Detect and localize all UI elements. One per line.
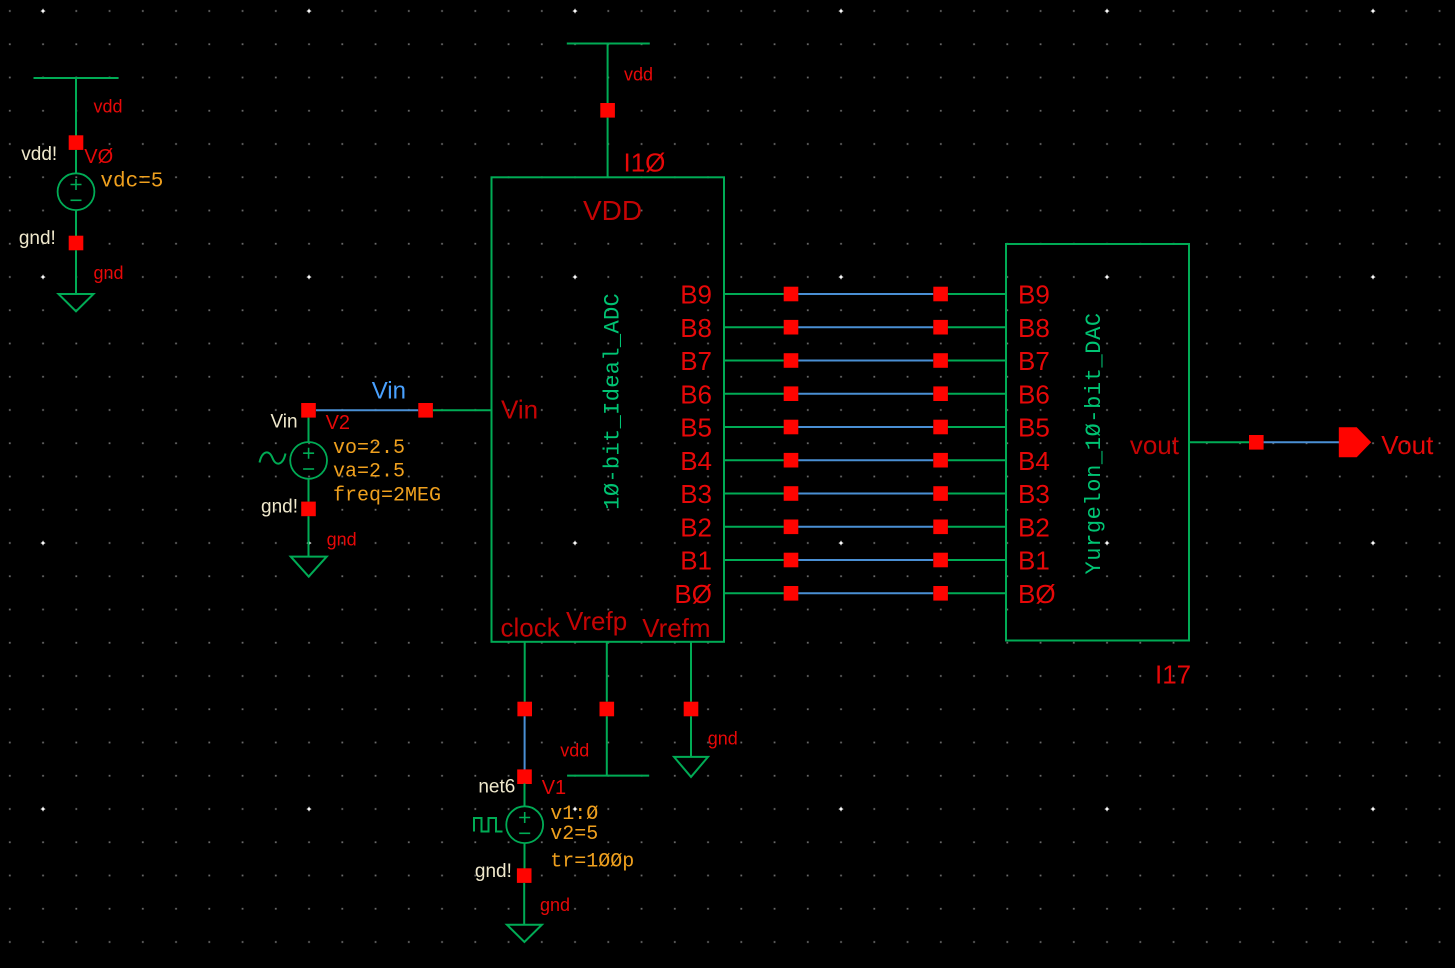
ground symbol (V1) (507, 925, 542, 942)
wire vout (blue) (1264, 441, 1339, 443)
pin square V2 minus (301, 502, 316, 517)
pin square V1 minus (517, 868, 532, 883)
wire B1 (blue) (798, 559, 933, 561)
ADC block I10 body (492, 177, 725, 642)
voltage source V0 (58, 173, 95, 210)
pin square B8 right (933, 320, 948, 335)
wire B1 (ADC side) (724, 559, 784, 561)
power rail vdd (V0) (34, 77, 119, 79)
pin square B9 right (933, 287, 948, 302)
wire B7 (DAC side) (948, 360, 1006, 362)
svg-text:V2: V2 (326, 412, 350, 434)
power rail vdd (I10) (567, 43, 650, 45)
pin square B4 right (933, 453, 948, 468)
pin square B0 left (784, 586, 799, 601)
wire net6 (blue) (524, 716, 526, 770)
wire B7 (ADC side) (724, 360, 784, 362)
svg-text:VDD: VDD (583, 195, 642, 226)
wire B8 (DAC side) (948, 326, 1006, 328)
svg-text:Vin: Vin (372, 378, 406, 405)
pin square B6 left (784, 386, 799, 401)
pin square B9 left (784, 287, 799, 302)
svg-text:vdd: vdd (560, 741, 589, 761)
pin square vout (1249, 435, 1264, 450)
svg-text:Vrefm: Vrefm (642, 613, 710, 643)
pin square B6 right (933, 386, 948, 401)
svg-text:Vin: Vin (270, 412, 297, 433)
svg-text:B8: B8 (680, 313, 712, 343)
ground symbol (V0) (59, 294, 94, 311)
wire B9 (blue) (798, 293, 933, 295)
wire B8 (ADC side) (724, 326, 784, 328)
svg-text:gnd!: gnd! (475, 861, 512, 882)
svg-text:net6: net6 (478, 776, 515, 797)
svg-text:B9: B9 (680, 280, 712, 310)
wire B4 (blue) (798, 459, 933, 461)
svg-text:vdd!: vdd! (21, 144, 57, 165)
svg-text:vdd: vdd (94, 97, 123, 117)
ground symbol (Vrefm) (674, 757, 708, 777)
svg-text:v2=5: v2=5 (550, 823, 598, 846)
svg-text:B5: B5 (680, 413, 712, 443)
svg-text:B7: B7 (1018, 346, 1050, 376)
wire B3 (DAC side) (948, 493, 1006, 495)
wire (308, 418, 310, 442)
svg-text:B3: B3 (1018, 479, 1050, 509)
wire Vrefm (690, 642, 692, 702)
pin square B7 left (784, 353, 799, 368)
wire B1 (DAC side) (948, 559, 1006, 561)
svg-text:B6: B6 (1018, 379, 1050, 409)
svg-text:Vin: Vin (501, 395, 538, 425)
wire B7 (blue) (798, 360, 933, 362)
svg-text:gnd!: gnd! (19, 228, 56, 249)
svg-text:gnd: gnd (540, 895, 570, 915)
wire B3 (blue) (798, 493, 933, 495)
wire (524, 843, 526, 869)
pulse symbol V1 (474, 818, 503, 832)
svg-text:Yurgelon_1Ø-bit_DAC: Yurgelon_1Ø-bit_DAC (1082, 312, 1107, 574)
wire B5 (ADC side) (724, 426, 784, 428)
pin square V1 plus (517, 769, 532, 784)
svg-text:gnd!: gnd! (261, 497, 298, 518)
wire B4 (ADC side) (724, 459, 784, 461)
wire B5 (DAC side) (948, 426, 1006, 428)
voltage source V2 (290, 442, 327, 479)
svg-text:gnd: gnd (708, 729, 738, 749)
wire B9 (ADC side) (724, 293, 784, 295)
svg-text:BØ: BØ (674, 579, 712, 609)
svg-text:Vout: Vout (1381, 430, 1434, 460)
wire vout (1189, 441, 1249, 443)
svg-text:B1: B1 (680, 546, 712, 576)
svg-text:I17: I17 (1155, 660, 1191, 690)
pin square B1 left (784, 553, 799, 568)
svg-text:B3: B3 (680, 479, 712, 509)
pin square Vrefp (600, 702, 615, 717)
svg-text:freq=2MEG: freq=2MEG (333, 485, 441, 508)
pin square B3 left (784, 486, 799, 501)
pin square V0 minus (69, 236, 84, 251)
pin square Vrefm (684, 702, 699, 717)
svg-text:B6: B6 (680, 379, 712, 409)
pin square Vin wire (418, 403, 433, 418)
svg-text:B2: B2 (680, 512, 712, 542)
svg-text:B7: B7 (680, 346, 712, 376)
power rail vdd (Vrefp) (567, 775, 649, 777)
svg-text:gnd: gnd (327, 529, 357, 549)
wire Vrefp (606, 642, 608, 702)
svg-text:B9: B9 (1018, 280, 1050, 310)
pin square B5 left (784, 420, 799, 435)
svg-text:tr=1ØØp: tr=1ØØp (550, 850, 634, 873)
wire Vrefp to vdd rail (606, 716, 608, 775)
wire B0 (blue) (798, 592, 933, 594)
wire B6 (DAC side) (948, 393, 1006, 395)
wire (75, 210, 77, 236)
pin square B2 left (784, 520, 799, 535)
wire (523, 883, 525, 925)
ground symbol (V2) (291, 557, 327, 577)
wire B0 (ADC side) (724, 592, 784, 594)
pin square B4 left (784, 453, 799, 468)
svg-text:B8: B8 (1018, 313, 1050, 343)
svg-text:vdd: vdd (624, 64, 653, 84)
svg-text:vout: vout (1130, 430, 1180, 460)
wire B0 (DAC side) (948, 592, 1006, 594)
pin square B1 right (933, 553, 948, 568)
svg-text:B4: B4 (680, 446, 712, 476)
wire (75, 150, 77, 174)
wire B6 (ADC side) (724, 393, 784, 395)
sine symbol V2 (260, 452, 286, 463)
wire B2 (ADC side) (724, 526, 784, 528)
wire (75, 250, 77, 294)
wire B5 (blue) (798, 426, 933, 428)
wire (607, 118, 609, 178)
svg-text:Vrefp: Vrefp (566, 606, 627, 636)
wire B4 (DAC side) (948, 459, 1006, 461)
wire Vin (blue) (316, 409, 418, 411)
svg-text:B2: B2 (1018, 512, 1050, 542)
wire (308, 516, 310, 556)
wire B2 (blue) (798, 526, 933, 528)
svg-text:vdc=5: vdc=5 (100, 171, 163, 194)
wire Vrefm to gnd (690, 716, 692, 757)
wire B8 (blue) (798, 326, 933, 328)
svg-text:B4: B4 (1018, 446, 1050, 476)
output port arrow Vout (1339, 427, 1371, 457)
pin square B7 right (933, 353, 948, 368)
svg-text:BØ: BØ (1018, 579, 1056, 609)
svg-text:clock: clock (501, 613, 561, 643)
wire B6 (blue) (798, 393, 933, 395)
svg-text:VØ: VØ (84, 146, 113, 168)
pin square B0 right (933, 586, 948, 601)
svg-text:1Ø-bit_Ideal_ADC: 1Ø-bit_Ideal_ADC (601, 293, 626, 510)
pin square V0 plus (69, 135, 84, 150)
pin square clock (517, 702, 532, 717)
voltage source V1 (506, 806, 543, 843)
wire (524, 783, 526, 806)
wire B9 (DAC side) (948, 293, 1006, 295)
pin square B5 right (933, 420, 948, 435)
svg-text:B1: B1 (1018, 546, 1050, 576)
wire clock (524, 642, 526, 702)
svg-text:B5: B5 (1018, 413, 1050, 443)
svg-text:V1: V1 (542, 777, 566, 799)
svg-text:I1Ø: I1Ø (624, 148, 666, 178)
svg-text:gnd: gnd (94, 263, 124, 283)
wire Vin to ADC (433, 409, 492, 411)
pin square B2 right (933, 520, 948, 535)
DAC block I17 body (1006, 244, 1189, 641)
wire B2 (DAC side) (948, 526, 1006, 528)
pin square V2 plus (301, 403, 316, 418)
pin square VDD (600, 103, 615, 118)
pin square B3 right (933, 486, 948, 501)
pin square B8 left (784, 320, 799, 335)
svg-text:va=2.5: va=2.5 (333, 460, 405, 483)
wire (308, 479, 310, 502)
wire B3 (ADC side) (724, 493, 784, 495)
svg-text:vo=2.5: vo=2.5 (333, 437, 405, 460)
